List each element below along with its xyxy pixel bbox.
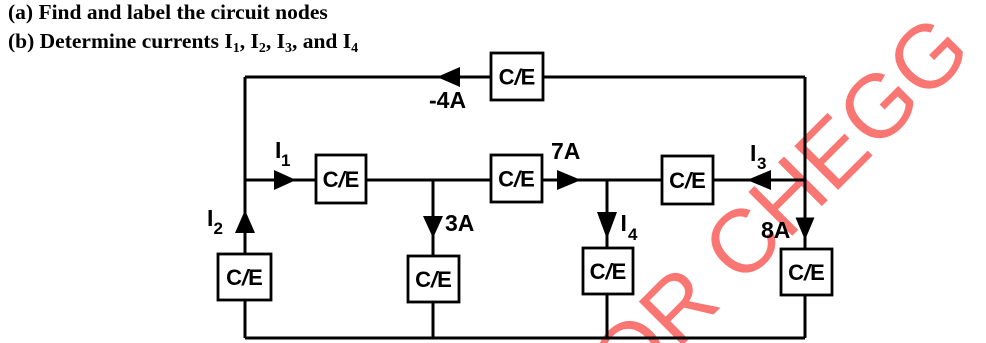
svg-text:7A: 7A bbox=[551, 138, 580, 164]
svg-text:C/E: C/E bbox=[499, 65, 536, 90]
svg-text:C/E: C/E bbox=[415, 267, 452, 292]
svg-text:I: I bbox=[621, 210, 627, 236]
svg-text:(b) Determine currents I1, I2,: (b) Determine currents I1, I2, I3, and I… bbox=[8, 29, 358, 56]
svg-text:C/E: C/E bbox=[498, 167, 535, 192]
svg-text:-4A: -4A bbox=[429, 87, 466, 113]
svg-text:I: I bbox=[750, 140, 756, 166]
svg-text:C/E: C/E bbox=[788, 260, 825, 285]
svg-text:I: I bbox=[207, 205, 213, 231]
svg-text:4: 4 bbox=[628, 225, 638, 244]
svg-text:2: 2 bbox=[214, 219, 223, 238]
svg-text:(a) Find and label the circuit: (a) Find and label the circuit nodes bbox=[8, 0, 328, 24]
svg-text:C/E: C/E bbox=[323, 167, 360, 192]
svg-text:C/E: C/E bbox=[669, 168, 706, 193]
svg-text:3A: 3A bbox=[445, 210, 474, 236]
svg-text:1: 1 bbox=[281, 151, 290, 170]
svg-text:C/E: C/E bbox=[590, 259, 627, 284]
svg-text:8A: 8A bbox=[761, 217, 790, 243]
svg-text:3: 3 bbox=[757, 154, 766, 173]
svg-text:C/E: C/E bbox=[226, 265, 263, 290]
